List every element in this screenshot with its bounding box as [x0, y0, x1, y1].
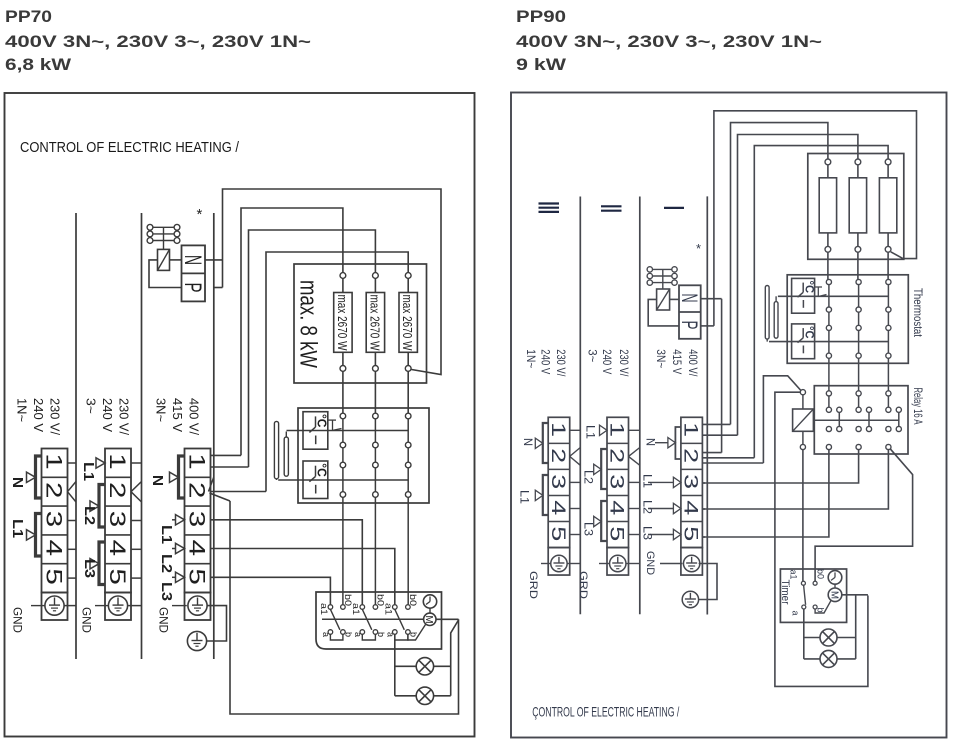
trip linkage mark — [328, 419, 336, 421]
junction Y2 pin2 to rail — [629, 448, 640, 457]
svg-text:9 kW: 9 kW — [516, 55, 567, 74]
thermostat contacts pole 1 — [340, 413, 346, 419]
wire thermostat pole 2 to timer contact — [374, 497, 376, 604]
lead GRD Y1 — [541, 563, 551, 565]
arrow L2 X3 pin 4 — [172, 548, 176, 550]
arrow L1 X2 — [96, 458, 105, 468]
signal lamp H1 — [395, 665, 416, 667]
relay coil terminals — [800, 390, 805, 395]
wire P junction to wire A — [701, 325, 714, 327]
wire relay pole3 to timer b0 — [815, 449, 913, 581]
thermostat switch S2 — [303, 461, 328, 499]
wire C right: terminal1 to element 2 — [738, 135, 858, 436]
svg-text:3: 3 — [185, 511, 210, 528]
wire thermostat pole 2 to relay right — [858, 358, 860, 391]
trip linkage mark right — [815, 286, 822, 288]
svg-text:a: a — [353, 632, 363, 637]
svg-text:*: * — [696, 241, 701, 256]
terminal block Y2 (230V/240V 3~) right — [607, 417, 629, 547]
earth electrode symbol right — [682, 591, 698, 607]
svg-text:1: 1 — [42, 453, 67, 470]
wire N to riser — [205, 259, 223, 261]
wire X3 pin4 to timer a1 group3 — [211, 549, 395, 605]
wire element R2 to thermostat — [374, 371, 376, 413]
thermostat contacts pole 3 right — [886, 279, 891, 284]
lamp return riser right — [855, 595, 857, 659]
svg-text:°C: °C — [315, 463, 329, 477]
relay coil — [793, 409, 814, 431]
contactor K2 actuator link — [662, 269, 664, 289]
sensor capillary inner — [284, 437, 288, 476]
svg-text:b: b — [409, 632, 419, 637]
arrow N X3 — [170, 472, 179, 482]
wire D right: terminal2 to element 3 — [754, 146, 888, 458]
stubs X1 to rail — [68, 462, 77, 464]
thermostat bus S2 right — [769, 341, 888, 343]
wire b to motor right — [815, 600, 831, 613]
svg-text:Relay 16 A: Relay 16 A — [911, 388, 923, 425]
wire coil node to motor return — [775, 392, 868, 686]
ground terminal cell — [185, 593, 211, 621]
svg-text:N: N — [149, 475, 165, 486]
wire element E2 to thermostat right — [857, 252, 859, 280]
arrow N X1 — [27, 472, 36, 482]
svg-text:3: 3 — [105, 511, 130, 528]
svg-text:P: P — [677, 321, 702, 330]
svg-text:°C: °C — [803, 326, 815, 339]
timer cam contact group 1 — [328, 605, 333, 610]
wire D: terminal 2 to element 3 top — [266, 252, 408, 492]
svg-text:1: 1 — [547, 422, 569, 437]
terminal block Y1 (230V/240V 1N~) right — [548, 417, 570, 547]
terminal block Y3 (400V/415V 3N~) right — [681, 417, 703, 547]
svg-text:4: 4 — [606, 500, 628, 515]
svg-text:GND: GND — [157, 607, 169, 633]
wire Y3 pin2 to wire D right — [702, 457, 754, 459]
svg-text:N: N — [9, 477, 25, 488]
svg-text:L3: L3 — [81, 559, 97, 578]
stubs X2 to rail — [131, 462, 142, 464]
svg-text:b0: b0 — [814, 569, 825, 579]
stub Y2 earth to rail — [626, 563, 640, 565]
wire relay pole3 to terminal 4 — [702, 450, 889, 509]
svg-text:1N~: 1N~ — [15, 398, 29, 422]
svg-text:3: 3 — [679, 474, 701, 489]
svg-text:400V 3N~, 230V 3~, 230V 1N~: 400V 3N~, 230V 3~, 230V 1N~ — [5, 32, 311, 51]
svg-text:*: * — [197, 206, 203, 223]
wire X3 pin5 to timer a1 group1 — [211, 577, 331, 604]
svg-text:GRD: GRD — [527, 571, 539, 599]
terminal box N/P right — [679, 285, 701, 339]
svg-text:L1: L1 — [518, 490, 530, 504]
terminal block X3 (400V/415V 3N~) — [185, 449, 211, 593]
svg-text:4: 4 — [105, 540, 130, 557]
earth symbol — [683, 555, 699, 571]
thermostat contacts pole 1 right — [826, 279, 831, 284]
wire coil bottom to timer a1 — [802, 450, 804, 582]
svg-text:L2: L2 — [158, 554, 174, 573]
sensor capillary outer — [274, 421, 278, 478]
earth symbol — [551, 555, 567, 571]
wire N right to riser — [701, 298, 722, 300]
jumper X2 pins 4-5 — [99, 542, 105, 585]
svg-text:N: N — [677, 294, 702, 303]
heating element R2 max 2670 W — [373, 273, 379, 279]
clock symbol right — [828, 571, 842, 585]
wire B: terminal 1 to element 1 top — [241, 208, 343, 455]
arrow L1 X3 pin 3 — [172, 519, 176, 521]
svg-text:L3: L3 — [582, 522, 594, 536]
jumper Y2 pins 4-5 — [601, 501, 607, 541]
jumper Y3 pins 1-2 — [675, 427, 681, 459]
svg-text:230 V/: 230 V/ — [48, 398, 62, 436]
arrow L1 X1 — [27, 530, 36, 540]
svg-text:L1: L1 — [641, 474, 653, 488]
svg-text:L1: L1 — [158, 525, 174, 544]
ground terminal cell — [42, 593, 68, 621]
thermostat box left — [298, 408, 429, 503]
relay pole 1 contacts — [826, 391, 831, 396]
jumper X3 pins 1-2 — [179, 456, 185, 498]
timer cam contact group 2 — [360, 605, 365, 610]
svg-text:°C: °C — [803, 281, 815, 294]
arrow L3 Y2 — [594, 516, 602, 526]
svg-text:4: 4 — [547, 500, 569, 515]
svg-text:°C: °C — [315, 414, 329, 428]
wire coil to P right — [648, 299, 679, 326]
svg-text:1: 1 — [679, 422, 701, 437]
lead GND X2 — [95, 605, 109, 607]
jumper X2 pins 2-3 — [99, 485, 105, 528]
ground terminal cell — [548, 548, 570, 576]
heating element E2 right — [855, 159, 861, 165]
wire thermostat pole 1 to relay right — [828, 358, 830, 391]
timer cam contact group 3 — [393, 605, 398, 610]
relay pole 3 contacts — [886, 391, 891, 396]
arrow N Y1 — [535, 438, 543, 448]
signal lamp H2 — [395, 695, 416, 697]
wire A: N riser to element 3 bottom — [223, 189, 442, 375]
earth symbol — [45, 596, 64, 615]
svg-text:N: N — [179, 255, 206, 265]
svg-text:GRD: GRD — [577, 571, 589, 599]
neutral return wire to motor/lamps — [230, 501, 459, 714]
phase mark three-phase — [539, 202, 560, 204]
svg-text:Timer: Timer — [779, 580, 791, 605]
svg-text:415 V: 415 V — [670, 349, 684, 374]
wire thermostat pole 3 to relay right — [887, 358, 889, 391]
svg-text:N: N — [644, 438, 656, 446]
svg-text:L3: L3 — [158, 582, 174, 601]
wire Y3 earth to earth electrode right — [699, 564, 717, 600]
svg-text:400 V/: 400 V/ — [187, 398, 201, 436]
clock symbol — [423, 595, 436, 608]
svg-text:N: N — [521, 438, 533, 446]
right rail group 2 — [639, 197, 641, 615]
svg-text:400 V/: 400 V/ — [686, 349, 700, 377]
svg-text:PP70: PP70 — [5, 7, 52, 26]
wire X3 pin1 to wire C — [211, 466, 249, 468]
thermostat contacts pole 3 — [405, 413, 411, 419]
arrow L3 X3 pin 5 — [172, 576, 176, 578]
svg-text:P: P — [179, 283, 206, 293]
jumper Y1 pins 3-4 — [543, 475, 548, 515]
wire riser junction to rail 3 — [214, 287, 223, 289]
junction X3 pin2 to rail 3 — [209, 477, 214, 492]
wire X3 pin2 to wire D — [211, 491, 267, 493]
heating element R1 max 2670 W — [340, 273, 346, 279]
svg-text:5: 5 — [105, 568, 130, 585]
earth symbol — [188, 596, 207, 615]
svg-text:2: 2 — [185, 482, 210, 499]
lead GRD Y2 — [599, 563, 610, 565]
svg-text:M: M — [423, 616, 434, 624]
stub X1 earth to rail — [64, 605, 76, 607]
contactor K2 main contacts — [647, 267, 652, 272]
svg-text:240 V: 240 V — [600, 349, 614, 374]
svg-text:a: a — [321, 632, 331, 637]
svg-text:1: 1 — [105, 453, 130, 470]
jumper Y2 pins 2-3 — [601, 449, 607, 489]
thermostat switch S1 (limiter) — [303, 412, 328, 450]
svg-text:1: 1 — [185, 453, 210, 470]
signal lamp H2 right — [804, 658, 820, 660]
heating element E3 right — [885, 159, 891, 165]
left rail group 2 (230V 3~) — [141, 213, 143, 659]
svg-text:230 V/: 230 V/ — [554, 349, 568, 377]
timer box with cam switches — [316, 592, 442, 649]
stub Y1 earth to rail — [567, 563, 580, 565]
svg-text:b0: b0 — [407, 594, 418, 606]
heating element E1 right — [825, 159, 831, 165]
svg-text:3N~: 3N~ — [154, 398, 168, 422]
jumper X1 pins 3-4 — [36, 514, 42, 557]
wire relay pole1 to terminal 5 — [702, 450, 829, 537]
wire Y3 pin5 to relay pole1 — [702, 536, 705, 538]
signal lamp H1 right — [804, 637, 820, 639]
sensor capillary outer right — [765, 286, 769, 340]
svg-text:a: a — [791, 611, 801, 616]
svg-text:230 V/: 230 V/ — [617, 349, 631, 377]
svg-text:230 V/: 230 V/ — [117, 398, 131, 436]
svg-text:CONTROL OF ELECTRIC HEATING /: CONTROL OF ELECTRIC HEATING / — [20, 140, 240, 156]
svg-text:5: 5 — [679, 526, 701, 541]
wire relay pole2 to terminal 3 — [702, 450, 859, 483]
svg-text:ÇONTROL OF ELECTRIC HEATING /: ÇONTROL OF ELECTRIC HEATING / — [532, 705, 679, 720]
heater element box right — [808, 154, 904, 260]
stub X2 earth to rail — [128, 605, 142, 607]
thermostat contacts pole 2 — [373, 413, 379, 419]
left rail group 3 (400V 3N~) — [213, 213, 215, 659]
wire element E1 to thermostat right — [827, 252, 829, 280]
svg-text:PP90: PP90 — [516, 7, 566, 26]
svg-text:max. 8 kW: max. 8 kW — [295, 280, 322, 369]
left panel border frame — [5, 93, 475, 737]
jumper X1 pins 1-2 — [36, 456, 42, 498]
svg-text:1: 1 — [606, 422, 628, 437]
svg-text:L1: L1 — [9, 519, 25, 538]
svg-text:L2: L2 — [641, 500, 653, 514]
wire A right: to element 3 bottom — [714, 111, 917, 326]
wire lamp return riser — [394, 634, 396, 696]
junction X2 pin 2 to rail — [131, 482, 142, 492]
svg-text:a1: a1 — [382, 603, 393, 615]
ground terminal cell — [681, 548, 703, 576]
stubs Y1 to rail — [570, 429, 581, 431]
wire C: terminal 1 to element 2 top — [249, 230, 376, 467]
svg-text:6,8 kW: 6,8 kW — [5, 55, 72, 74]
svg-text:3: 3 — [606, 474, 628, 489]
svg-text:L2: L2 — [582, 470, 594, 484]
svg-text:a1: a1 — [788, 570, 799, 580]
arrow L2 Y3 pin4 with lead — [648, 508, 673, 510]
arrow L3 X2 — [90, 559, 99, 569]
svg-text:b: b — [376, 632, 386, 637]
wire X3 pin1 to wire B — [211, 454, 242, 456]
relay pole 2 contacts — [856, 391, 861, 396]
svg-text:4: 4 — [42, 540, 67, 557]
relay box Relay 16 A — [814, 386, 908, 454]
svg-text:3: 3 — [42, 511, 67, 528]
svg-text:L1: L1 — [80, 462, 96, 481]
jumper Y1 pins 1-2 — [543, 423, 548, 463]
thermostat contacts pole 2 right — [856, 279, 861, 284]
svg-text:3N~: 3N~ — [654, 349, 668, 368]
arrow L1 Y2 — [600, 425, 608, 435]
svg-text:240 V: 240 V — [100, 398, 114, 433]
junction X1 pin 2 to rail — [68, 482, 77, 492]
earth electrode symbol — [187, 631, 206, 650]
sensor capillary inner right — [774, 302, 778, 339]
svg-text:5: 5 — [185, 568, 210, 585]
svg-text:a1: a1 — [350, 603, 361, 615]
contactor K1 coil — [158, 249, 170, 270]
wire Y3 pin2 to N riser — [702, 452, 721, 454]
relay linkage bar — [813, 419, 898, 421]
right rail group 1 — [579, 197, 581, 615]
wire element R3 to thermostat — [407, 371, 409, 413]
svg-text:max 2670 W: max 2670 W — [400, 295, 415, 352]
svg-text:5: 5 — [547, 526, 569, 541]
svg-text:b: b — [344, 632, 354, 637]
heating element R3 max 2670 W — [405, 273, 411, 279]
wire B right: terminal1 to element 1 — [731, 123, 828, 425]
contactor K1 main contacts (3 poles) — [147, 224, 153, 230]
svg-text:5: 5 — [42, 568, 67, 585]
svg-text:2: 2 — [547, 448, 569, 463]
timer box right — [780, 569, 846, 622]
wire Y3 pin3 to relay pole2 — [702, 482, 705, 484]
svg-text:3: 3 — [547, 474, 569, 489]
wire element R1 to thermostat — [342, 371, 344, 413]
svg-text:3~: 3~ — [585, 349, 599, 362]
junction Y1 pin2 to rail — [570, 448, 581, 457]
wire Y3 pin2 to coil wire — [702, 462, 763, 464]
svg-text:2: 2 — [42, 482, 67, 499]
thermostat bus S1 right — [778, 295, 889, 297]
wire motor output — [436, 618, 459, 620]
lead GND X1 — [31, 605, 45, 607]
svg-text:b: b — [815, 608, 825, 613]
earth symbol — [108, 596, 127, 615]
wire motor node to lamp feed — [451, 620, 459, 696]
svg-text:L3: L3 — [641, 526, 653, 540]
arrow L1 Y1 — [535, 490, 543, 500]
svg-text:240 V: 240 V — [539, 349, 553, 374]
wire element E3 to thermostat right — [887, 252, 889, 280]
lead GND X3 — [172, 605, 187, 607]
svg-text:GND: GND — [80, 607, 92, 633]
wire group3 b to motor — [408, 625, 426, 641]
wire X3 pin2 to neutral return — [210, 493, 231, 501]
wire Y3 pin1 to wire C right — [702, 434, 737, 436]
svg-text:L2: L2 — [81, 506, 97, 525]
timer motor M right — [828, 588, 842, 602]
thermostat bus S1 — [287, 430, 409, 432]
lamp feed riser right — [803, 609, 805, 659]
svg-text:Thermostat: Thermostat — [911, 288, 923, 338]
right rail group 3 — [706, 196, 708, 614]
svg-text:GND: GND — [11, 607, 23, 633]
svg-text:5: 5 — [606, 526, 628, 541]
contactor K2 coil — [657, 289, 670, 310]
wire thermostat pole 3 to timer contact — [407, 497, 409, 604]
wire Y3 pin4 to relay pole3 — [702, 508, 705, 510]
wire coil right lead to N box — [170, 259, 182, 261]
svg-text:2: 2 — [105, 482, 130, 499]
svg-text:1N~: 1N~ — [524, 349, 538, 368]
earth symbol — [610, 555, 626, 571]
terminal block X1 (230V/240V 1N~) — [42, 449, 68, 593]
wire motor output right — [842, 594, 868, 596]
terminal box N/P — [182, 245, 206, 301]
arrow L2 Y2 — [594, 464, 602, 474]
wire coil left lead to P — [149, 260, 182, 288]
heater box max. 8 kW — [294, 264, 427, 383]
svg-text:4: 4 — [185, 540, 210, 557]
wire thermostat pole 1 to timer contact — [342, 497, 344, 604]
thermostat switch S1 right — [792, 278, 815, 313]
wire Y3 pin1 to wire B right — [702, 423, 730, 425]
svg-text:3~: 3~ — [84, 398, 98, 414]
svg-text:4: 4 — [679, 500, 701, 515]
thermostat box right — [787, 275, 908, 364]
svg-text:GND: GND — [644, 551, 656, 575]
arrow N Y3 with lead — [655, 442, 668, 444]
svg-text:max 2670 W: max 2670 W — [335, 295, 350, 352]
thermostat bus S2 — [278, 479, 408, 481]
phase mark single-phase — [664, 207, 684, 209]
arrow L3 Y3 pin5 with lead — [648, 534, 673, 536]
wire terminal2 to relay coil top — [763, 376, 801, 463]
right panel border frame — [511, 93, 947, 738]
svg-text:a1: a1 — [318, 603, 329, 615]
thermostat switch S2 right — [792, 324, 815, 359]
ground terminal cell — [607, 548, 629, 576]
svg-text:M: M — [829, 591, 840, 599]
svg-text:400V 3N~, 230V 3~, 230V 1N~: 400V 3N~, 230V 3~, 230V 1N~ — [516, 32, 822, 51]
timer internal bus to motor — [322, 618, 424, 620]
contactor K1 actuator link — [163, 227, 165, 249]
terminal block X2 (230V/240V 3~) — [105, 449, 131, 593]
timer contact a1/b0 — [801, 581, 805, 585]
svg-text:2: 2 — [606, 448, 628, 463]
ground terminal cell — [105, 593, 131, 621]
phase mark two-phase — [601, 205, 622, 207]
svg-text:415 V: 415 V — [170, 398, 184, 433]
arrow L2 X2 — [90, 501, 99, 511]
svg-text:240 V: 240 V — [31, 398, 45, 433]
